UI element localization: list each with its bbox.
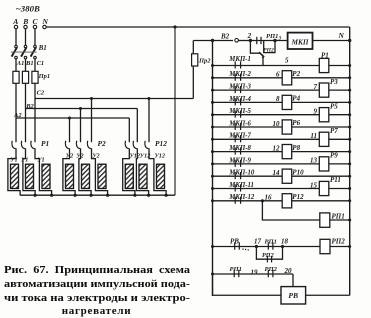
contactor contact Р2 pole 3 (87, 141, 91, 149)
svg-text:У12: У12 (155, 153, 166, 160)
rung 2: МКП-2 contact feeding relay Р2 (213, 77, 350, 79)
heater element У2 (electrode) (98, 164, 106, 188)
junction (165, 194, 168, 197)
svg-text:У12: У12 (130, 153, 141, 160)
wire РП1 coil to N rail (330, 219, 350, 221)
rung 10: МКП-10 contact feeding relay Р10 (213, 175, 350, 177)
contactor contact Р12 pole 2 (133, 141, 137, 149)
contact МКП-3 ticks (234, 86, 236, 93)
contact МКП-4 ticks (234, 98, 236, 105)
svg-text:18: 18 (281, 238, 289, 246)
wire N bus horizontal to right rail (46, 26, 350, 28)
svg-text:14: 14 (273, 169, 281, 177)
wire contact to heater У (23, 148, 35, 195)
svg-text:С1: С1 (37, 60, 45, 67)
junction (211, 39, 214, 42)
contact chevron mark (259, 52, 264, 58)
svg-text:Р2: Р2 (292, 70, 300, 78)
svg-text:19: 19 (251, 269, 259, 277)
heater element У2 (electrode) (66, 164, 74, 188)
contactor contact Р1 pole 2 (21, 141, 25, 149)
svg-text:У2: У2 (92, 153, 99, 160)
junction on N bus (173, 25, 176, 28)
svg-text:В: В (22, 17, 28, 26)
svg-text:МКП-7: МКП-7 (228, 133, 251, 140)
svg-text:МКП-6: МКП-6 (228, 120, 251, 127)
junction (106, 194, 109, 197)
relay coil РП1 (320, 213, 330, 227)
svg-text:N: N (338, 31, 345, 40)
contact МКП-7 ticks (234, 135, 236, 142)
svg-text:Р4: Р4 (292, 95, 300, 103)
wire N rail corner down (349, 27, 351, 41)
svg-text:РП2: РП2 (332, 238, 346, 246)
junction (273, 39, 276, 42)
wire А2 horizontal bus (16, 117, 129, 119)
svg-text:Р3: Р3 (330, 78, 338, 86)
svg-text:Р1: Р1 (321, 51, 329, 59)
svg-text:В1: В1 (25, 60, 34, 67)
svg-text:Р9: Р9 (330, 152, 338, 160)
contact МКП-1 ticks (234, 61, 236, 68)
contactor contact Р1 pole 3 (31, 141, 35, 149)
contact МКП-12 ticks (234, 197, 236, 204)
fuse group Пр1 (13, 71, 38, 84)
svg-text:У1: У1 (21, 156, 28, 163)
svg-text:Р8: Р8 (292, 144, 300, 152)
contactor contact Р2 pole 1 (65, 141, 69, 149)
svg-text:У1: У1 (37, 156, 44, 163)
rung 11: МКП-11 contact feeding relay Р11 (213, 188, 350, 190)
heater element У12 (electrode) (157, 164, 165, 188)
heater element У2 (electrode) (82, 164, 90, 188)
svg-text:Р5: Р5 (330, 102, 338, 110)
svg-text:У2: У2 (76, 153, 83, 160)
junction (79, 107, 82, 110)
wire contact to heater У (149, 148, 166, 195)
switch В1 three-pole knife switch (11, 45, 37, 59)
wire top rail segment to terminal (213, 40, 234, 42)
rung 7: МКП-7 contact feeding relay Р7 (213, 138, 350, 140)
svg-text:17: 17 (254, 238, 262, 246)
wire phase B vertical (25, 83, 27, 142)
wire contact to heater У (63, 148, 75, 195)
relay coil Р12 (282, 194, 292, 208)
svg-text:Р12: Р12 (155, 139, 167, 148)
svg-text:7: 7 (314, 83, 318, 91)
junction (90, 97, 93, 100)
time relay coil РВ box (281, 287, 306, 304)
junction node 16 on rung 12 (261, 199, 264, 202)
heater element У1 (electrode) (11, 164, 19, 188)
wire contact to heater У (79, 148, 91, 195)
rung 3: МКП-3 contact feeding relay Р3 (213, 89, 350, 91)
junction node 17 (255, 245, 258, 248)
wire contact to heater У (92, 148, 108, 195)
contact МКП-10 ticks (234, 172, 236, 179)
contact МКП-6 ticks (234, 123, 236, 130)
svg-text:МКП-10: МКП-10 (228, 170, 255, 177)
wire phase drop to switch B1 (25, 29, 27, 46)
wire node 20 down to РВ coil (292, 274, 294, 287)
svg-text:Р2: Р2 (98, 139, 107, 148)
terminal В2 (235, 39, 239, 43)
wire В2 horizontal bus (26, 108, 138, 110)
junction (50, 194, 53, 197)
contact РП2 ticks (267, 270, 269, 277)
svg-text:РП2: РП2 (262, 252, 274, 259)
svg-text:9: 9 (314, 108, 318, 116)
junction (68, 117, 71, 120)
relay coil Р3 (319, 83, 329, 97)
wire РВ box to N rail (306, 294, 350, 296)
rung 6: МКП-6 contact feeding relay Р6 (213, 126, 350, 128)
svg-text:~380В: ~380В (16, 4, 40, 14)
svg-text:У1: У1 (10, 156, 17, 163)
relay coil Р10 (282, 169, 292, 183)
contact МКП-11 ticks (234, 184, 236, 191)
svg-text:МКП-9: МКП-9 (228, 157, 251, 164)
svg-text:МКП-4: МКП-4 (228, 96, 251, 103)
wire phase drop to switch B1 (34, 29, 36, 46)
rung 8: МКП-8 contact feeding relay Р8 (213, 151, 350, 153)
svg-text:С2: С2 (37, 90, 45, 97)
rung 12: МКП-12 contact feeding relay Р12 (213, 200, 350, 202)
svg-text:Р10: Р10 (292, 168, 304, 176)
svg-text:У2: У2 (66, 153, 73, 160)
wire feed Р12 phase 1 (128, 118, 130, 142)
svg-text:В1: В1 (38, 44, 47, 52)
svg-text:2: 2 (247, 32, 252, 40)
junction (133, 194, 136, 197)
wire contact to heater У (136, 148, 148, 195)
contact РП1 ticks (233, 270, 235, 277)
wire electrode return bus (20, 194, 175, 196)
wire feed Р2 phase 3 (91, 99, 93, 143)
wire РП2 coil to N rail (330, 246, 350, 248)
heater element У12 (electrode) (125, 164, 133, 188)
svg-text:8: 8 (276, 95, 280, 103)
wire contact to heater У (8, 148, 20, 195)
time-relay contact РВ ticks (234, 242, 236, 249)
junction (74, 194, 77, 197)
wire chevron down to rung 1 (262, 57, 264, 66)
svg-text:В2: В2 (220, 32, 230, 40)
svg-text:РВ: РВ (288, 291, 298, 300)
relay coil Р5 (319, 108, 329, 122)
contact РП1-3 on rail (250, 40, 287, 42)
svg-text:5: 5 (285, 56, 289, 64)
contact МКП-2 ticks (234, 74, 236, 81)
wire С2 riser to fuse Пр2 (192, 41, 194, 99)
svg-text:РП2: РП2 (265, 266, 278, 273)
relay coil РП2 (320, 239, 330, 253)
relay coil Р11 (319, 181, 329, 195)
wire return bus riser to N (174, 27, 176, 195)
ladder left rail (212, 41, 214, 297)
relay coil Р1 (319, 58, 329, 72)
rung 5: МКП-5 contact feeding relay Р5 (213, 114, 350, 116)
svg-text:20: 20 (284, 267, 293, 275)
svg-text:Р12: Р12 (292, 193, 304, 201)
svg-text:6: 6 (276, 71, 280, 79)
svg-text:11: 11 (310, 132, 317, 140)
time-delay dots (242, 248, 243, 249)
wire fuse to ladder left rail (193, 40, 212, 42)
relay coil Р6 (282, 120, 292, 134)
svg-text:РП1: РП1 (265, 239, 277, 246)
svg-text:МКП-3: МКП-3 (228, 84, 251, 91)
wire С2 horizontal bus (35, 98, 193, 100)
wire feed Р12 phase 3 (148, 99, 150, 143)
svg-text:чи тока на электроды и электро: чи тока на электроды и электро- (4, 293, 191, 304)
svg-text:А: А (12, 17, 18, 26)
svg-text:13: 13 (310, 157, 318, 165)
relay coil Р9 (319, 157, 329, 171)
wire left rail bottom to РВ box (213, 274, 282, 295)
fuse Пр2 (192, 54, 198, 66)
contact РП1 ticks (267, 242, 269, 249)
wire switch to fuse (15, 59, 17, 72)
svg-text:МКП-12: МКП-12 (228, 194, 255, 201)
relay coil Р8 (282, 145, 292, 159)
command device МКП box (288, 33, 313, 49)
wire terminal to node 2 (239, 40, 251, 42)
svg-text:Р11: Р11 (330, 176, 341, 184)
svg-text:10: 10 (273, 120, 281, 128)
wire branch from node 2 down to rung 1 (250, 41, 259, 54)
contactor contact Р1 pole 1 (12, 141, 16, 149)
contactor contact Р2 pole 2 (76, 141, 80, 149)
wire phase drop to switch B1 (15, 29, 17, 46)
wire feed Р2 phase 1 (69, 118, 71, 142)
svg-text:МКП: МКП (291, 39, 309, 47)
wire switch to fuse (34, 59, 36, 72)
svg-text:Р7: Р7 (330, 127, 338, 135)
rung РП1-19 РП2-20 to РВ coil (213, 273, 294, 275)
svg-text:А1: А1 (16, 60, 25, 67)
parallel contact РП2 branch (U-shape) (264, 41, 275, 53)
svg-text:МКП-11: МКП-11 (228, 182, 254, 189)
junction node 18 (281, 245, 284, 248)
junction (348, 39, 351, 42)
svg-text:РП1: РП1 (230, 266, 242, 273)
junction (90, 194, 93, 197)
svg-text:РП1: РП1 (332, 212, 345, 220)
heater element У1 (electrode) (26, 164, 34, 188)
parallel self-hold contact РП2 branch (256, 247, 282, 260)
wire switch to fuse (25, 59, 27, 72)
relay coil Р2 (282, 71, 292, 85)
rung РВ-17-18 to РП2 coil (213, 246, 321, 248)
wire rung 12 down to РП1 coil line (262, 201, 319, 220)
svg-text:МКП-2: МКП-2 (228, 71, 251, 78)
junction (348, 245, 351, 248)
svg-text:Пр2: Пр2 (198, 58, 211, 65)
junction (147, 97, 150, 100)
relay coil Р4 (282, 95, 292, 109)
svg-text:N: N (42, 17, 49, 26)
junction (348, 219, 351, 222)
contact МКП-5 ticks (234, 111, 236, 118)
wire contact to heater У (35, 148, 52, 195)
wire feed Р12 phase 2 (136, 109, 138, 143)
junction (147, 194, 150, 197)
relay coil Р7 (319, 132, 329, 146)
heater element У1 (electrode) (42, 164, 50, 188)
junction (34, 194, 37, 197)
svg-text:15: 15 (310, 181, 318, 189)
rung 4: МКП-4 contact feeding relay Р4 (213, 101, 350, 103)
contactor contact Р12 pole 1 (125, 141, 129, 149)
rung 9: МКП-9 contact feeding relay Р9 (213, 163, 350, 165)
svg-text:16: 16 (265, 194, 273, 202)
heater element У12 (electrode) (139, 164, 147, 188)
contactor contact Р12 pole 3 (145, 141, 149, 149)
svg-text:автоматизации импульсной пода-: автоматизации импульсной пода- (4, 279, 191, 290)
node 2 junction (249, 39, 252, 42)
rung 1: МКП-1 contact feeding relay Р1 (213, 65, 350, 67)
svg-text:РП2: РП2 (263, 47, 274, 53)
contact ticks on branch (266, 256, 268, 262)
svg-text:МКП-8: МКП-8 (228, 145, 251, 152)
contact МКП-8 ticks (234, 147, 236, 154)
wire contact to heater У (123, 148, 135, 195)
svg-text:Рис. 67. Принципиальная схе: Рис. 67. Принципиальная схема (4, 265, 191, 276)
wire phase A vertical (15, 83, 17, 142)
svg-text:нагреватели: нагреватели (62, 305, 131, 317)
svg-text:Р6: Р6 (292, 119, 300, 127)
svg-text:МКП-1: МКП-1 (228, 56, 251, 63)
wire feed Р2 phase 2 (80, 109, 82, 143)
svg-text:Р1: Р1 (41, 139, 49, 148)
contact МКП-9 ticks (234, 160, 236, 167)
ladder right rail (N) (349, 41, 351, 296)
svg-text:МКП-5: МКП-5 (228, 108, 251, 115)
svg-text:12: 12 (273, 144, 281, 152)
wire phase C vertical (34, 83, 36, 142)
svg-text:Пр1: Пр1 (38, 73, 51, 80)
wire МКП to N rail (313, 40, 350, 42)
